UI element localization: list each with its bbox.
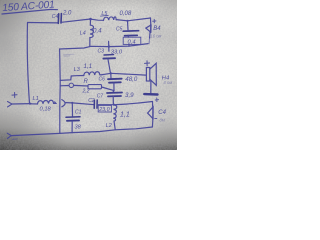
svg-text:C4: C4 bbox=[158, 110, 166, 116]
MF wire after hop to C2 bbox=[66, 103, 94, 105]
riser input to top rail bbox=[27, 23, 29, 104]
wire hop (bus crosses MF wire) bbox=[62, 100, 65, 107]
top rail C4 to node A bbox=[62, 19, 91, 22]
svg-text:0,18: 0,18 bbox=[40, 107, 52, 113]
capacitor C3 (mid rail to L3 rail) bbox=[108, 41, 110, 51]
svg-text:L1: L1 bbox=[33, 96, 39, 102]
inductor L5 bbox=[104, 17, 117, 20]
terminal - input bbox=[7, 133, 11, 138]
svg-text:1,1: 1,1 bbox=[84, 63, 93, 70]
junction C5 tap bbox=[126, 20, 128, 22]
title 150 AC-001 bbox=[1, 0, 57, 14]
woofer bottom lead bbox=[150, 81, 152, 93]
svg-text:C7: C7 bbox=[97, 93, 104, 99]
bus A vertical bbox=[59, 49, 62, 133]
capacitor C4 bbox=[58, 14, 61, 24]
resistor R body bbox=[88, 85, 102, 89]
R wire right bbox=[102, 87, 115, 91]
capacitor C7 bbox=[113, 91, 114, 92]
small loop on R wire bbox=[69, 83, 73, 87]
MF wire to midrange speaker bbox=[115, 102, 153, 105]
svg-text:0,08: 0,08 bbox=[120, 11, 132, 17]
svg-text:38: 38 bbox=[75, 125, 82, 131]
node A junction bbox=[89, 18, 92, 21]
junction C6 top bbox=[110, 72, 112, 74]
faint smudge mark bbox=[64, 54, 75, 56]
speaker H4 (woofer) bbox=[146, 68, 149, 82]
svg-text:C6: C6 bbox=[99, 76, 106, 82]
svg-text:2,0: 2,0 bbox=[62, 11, 72, 17]
svg-text:8м: 8м bbox=[160, 118, 165, 123]
svg-text:C3: C3 bbox=[98, 48, 105, 54]
svg-text:2,2: 2,2 bbox=[82, 88, 90, 94]
svg-text:C2: C2 bbox=[88, 98, 95, 104]
svg-text:L3: L3 bbox=[74, 67, 80, 73]
junction C1 tap bbox=[71, 102, 73, 104]
svg-text:3,9: 3,9 bbox=[125, 92, 134, 99]
capacitor C2 bbox=[94, 100, 97, 108]
bottom rail bbox=[11, 127, 152, 136]
inductor L2 (vertical) bbox=[113, 105, 117, 129]
terminal + input bbox=[12, 93, 17, 98]
top rail bbox=[28, 22, 59, 24]
svg-text:L4: L4 bbox=[80, 31, 86, 37]
svg-text:R: R bbox=[84, 79, 89, 85]
top rail node A to L5 bbox=[91, 19, 104, 20]
MF wire C2 to L2 node bbox=[97, 104, 113, 106]
junction L2 top bbox=[113, 104, 115, 106]
junction riser/input bbox=[29, 103, 31, 105]
svg-text:0,4: 0,4 bbox=[93, 28, 102, 35]
mid rail bbox=[60, 44, 148, 49]
svg-text:C5: C5 bbox=[116, 27, 123, 33]
svg-text:16 ом: 16 ом bbox=[150, 34, 161, 39]
svg-text:23,0: 23,0 bbox=[98, 107, 110, 113]
svg-text:C1: C1 bbox=[75, 109, 82, 115]
svg-text:8 ом: 8 ом bbox=[164, 80, 173, 85]
svg-text:L2: L2 bbox=[106, 123, 112, 129]
svg-text:B4: B4 bbox=[153, 26, 161, 32]
resistor R branch wire bbox=[60, 85, 69, 87]
svg-text:48,0: 48,0 bbox=[125, 76, 138, 83]
capacitor C5 (series) bbox=[127, 21, 130, 30]
woofer ground bar bbox=[144, 93, 157, 96]
capacitor C1 bbox=[71, 103, 73, 116]
top rail L5 to corner bbox=[116, 18, 150, 21]
speaker C4 (midrange) bbox=[152, 102, 154, 107]
inductor L3 bbox=[84, 72, 101, 76]
inductor L1 bbox=[31, 100, 56, 104]
wire + input to L1 bbox=[12, 103, 31, 105]
L3 rail right to woofer bbox=[101, 73, 146, 75]
capacitor C6 bbox=[110, 73, 112, 78]
inductor L4 (vertical shunt at node A) bbox=[90, 19, 94, 46]
svg-text:1,1: 1,1 bbox=[120, 112, 130, 119]
speaker B4 (tweeter) bbox=[150, 18, 152, 25]
L3 rail from bus with jog bbox=[60, 76, 84, 81]
svg-text:C4: C4 bbox=[52, 14, 59, 20]
